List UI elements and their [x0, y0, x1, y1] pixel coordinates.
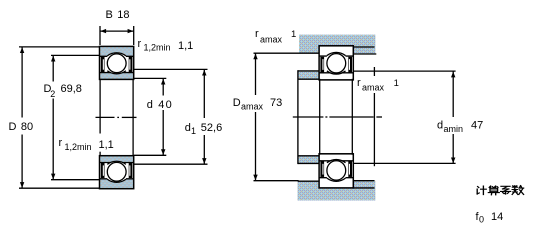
dimension d_amin: vertical dimension line with arrows (interrupted by text) — [452, 71, 454, 117]
svg-text:40: 40 — [158, 99, 173, 111]
svg-text:D: D — [233, 97, 241, 109]
svg-text:52,6: 52,6 — [201, 122, 222, 134]
dimension D2: extension lines — [51, 54, 100, 56]
svg-text:1: 1 — [291, 29, 296, 40]
bearing top section (white rings) — [319, 46, 353, 80]
dimension D_amax: vertical dimension line with arrows (interrupted by text) — [255, 53, 257, 95]
housing shoulder edge left — [299, 52, 319, 54]
shaft shoulder strip (upper left, blue) — [299, 71, 320, 78]
bearing side face line right (middle) — [351, 79, 353, 155]
svg-text:r: r — [138, 38, 142, 50]
svg-text:d: d — [437, 120, 443, 132]
svg-text:amax: amax — [241, 102, 264, 112]
svg-text:69,8: 69,8 — [61, 83, 82, 95]
dimension B: dimension line with outward arrows — [100, 30, 134, 32]
shaft shoulder strip (lower left, blue) — [299, 156, 320, 163]
dimension D: vertical dimension line with arrows (interrupted by text) — [21, 47, 23, 118]
svg-text:47: 47 — [471, 120, 483, 132]
dimension D: extension lines — [19, 46, 100, 48]
svg-text:2: 2 — [50, 89, 55, 99]
r_amax fillet reference line (vertical with ticks) — [373, 67, 375, 76]
svg-text:1: 1 — [394, 78, 399, 89]
svg-text:0: 0 — [479, 215, 484, 225]
bearing bottom section (mirrored) — [100, 156, 134, 189]
bearing side face line left (middle) — [319, 79, 321, 155]
dimension d: extension lines — [134, 77, 167, 79]
dimension D_amax: extension lines — [254, 52, 300, 54]
svg-text:amin: amin — [444, 124, 464, 134]
dimension d1: vertical dimension line with arrows (interrupted by text) — [203, 69, 205, 118]
svg-text:73: 73 — [270, 97, 282, 109]
系 — [501, 186, 511, 194]
svg-text:amax: amax — [260, 35, 283, 45]
svg-text:d: d — [147, 99, 153, 111]
svg-text:r: r — [357, 77, 361, 89]
centerline of right figure (dash-dot axis) — [293, 116, 324, 118]
svg-text:1,1: 1,1 — [178, 40, 193, 52]
计 — [477, 186, 486, 195]
svg-text:amax: amax — [362, 83, 385, 93]
shaft section (blue) — [298, 181, 376, 201]
shaft shoulder silhouette line — [297, 70, 299, 164]
dimension d: vertical dimension line with arrows (interrupted by text) — [162, 78, 164, 95]
dimension d1: extension lines — [134, 68, 208, 70]
housing section (blue) — [299, 35, 375, 54]
bearing bottom section (white rings, mirrored) — [319, 154, 353, 188]
svg-text:d: d — [185, 122, 191, 134]
bearing side face line right (middle part) — [132, 79, 134, 155]
dimension d_amin: extension line top — [353, 70, 456, 72]
算 — [489, 186, 498, 188]
dimension B: extension lines — [99, 26, 101, 45]
dimension d_amin: extension line bottom — [353, 162, 456, 164]
svg-text:1,2min: 1,2min — [65, 142, 92, 152]
shaft shoulder edge left — [298, 180, 319, 182]
svg-text:D 80: D 80 — [9, 121, 34, 133]
housing shoulder edge right — [353, 53, 376, 55]
centerline of left figure (dash-dot axis) — [96, 116, 115, 118]
svg-text:14: 14 — [491, 211, 503, 223]
housing bore line right of bearing — [353, 46, 375, 48]
svg-text:1: 1 — [191, 126, 196, 136]
label: Chinese heading 计算系数 drawn as paths — [477, 186, 523, 195]
shaft shoulder edge right — [353, 180, 375, 182]
svg-text:r: r — [59, 137, 63, 149]
svg-text:1,2min: 1,2min — [144, 43, 171, 53]
svg-text:r: r — [255, 28, 259, 40]
数 — [512, 186, 518, 195]
bearing side face line left (middle part) — [99, 79, 101, 133]
bearing top section (outer ring, ball, seals, inner ring) — [100, 46, 134, 79]
shaft surface line right of bearing — [353, 187, 375, 189]
svg-text:B 18: B 18 — [106, 9, 130, 21]
svg-text:1,1: 1,1 — [99, 139, 114, 151]
dimension D2: vertical dimension line with arrows (interrupted by text) — [52, 55, 54, 81]
